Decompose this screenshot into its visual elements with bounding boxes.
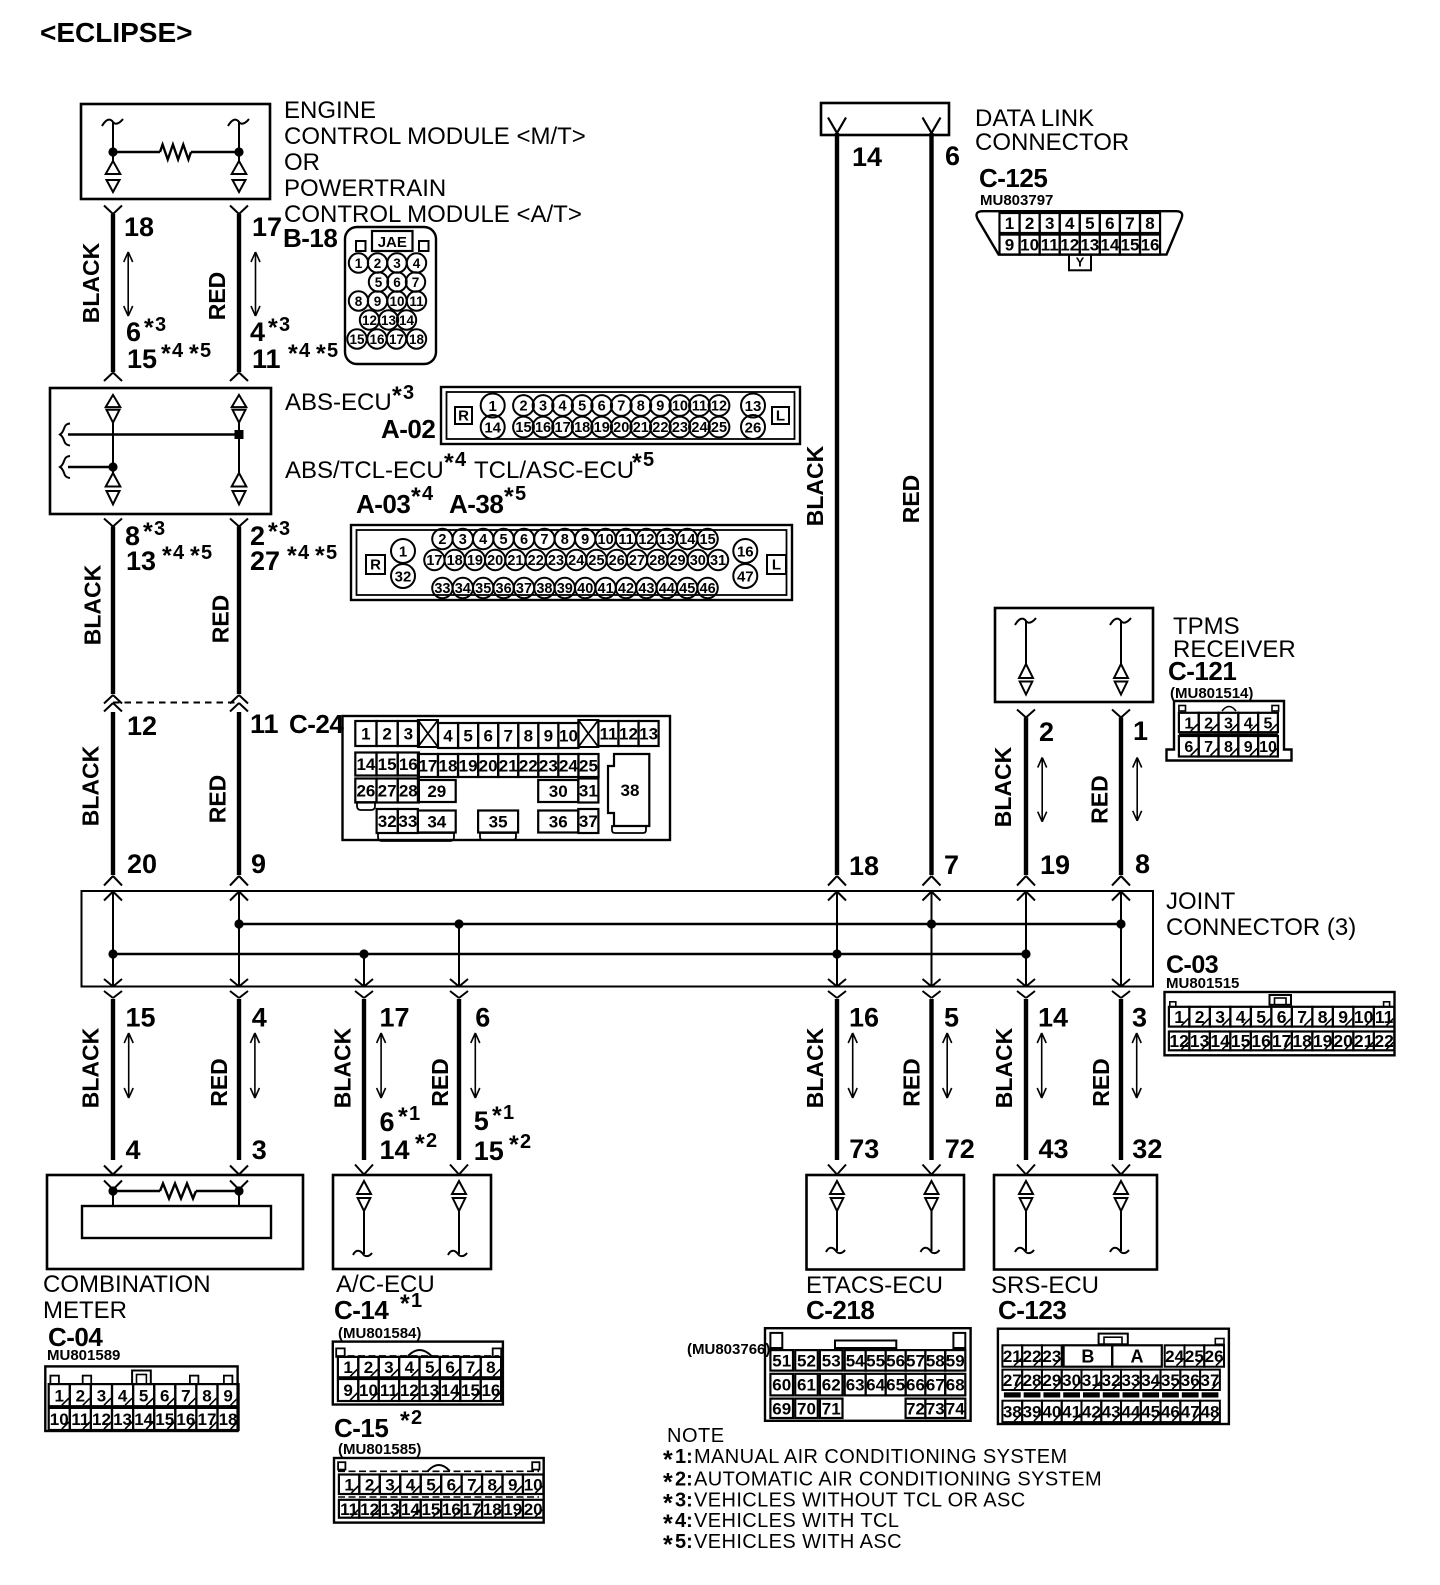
svg-text:VEHICLES WITH TCL: VEHICLES WITH TCL xyxy=(694,1510,899,1532)
C-03 cavity 16 xyxy=(1251,1032,1272,1051)
svg-text:14: 14 xyxy=(1100,236,1119,255)
svg-text:10: 10 xyxy=(1354,1007,1374,1027)
svg-text:16: 16 xyxy=(369,332,385,347)
C-03 cavity 2 xyxy=(1189,1007,1210,1027)
svg-text:11: 11 xyxy=(692,399,707,415)
svg-text:10: 10 xyxy=(672,399,688,415)
svg-text:C-121: C-121 xyxy=(1168,656,1236,686)
C-24 cavity 13 xyxy=(639,721,659,746)
connector C-03 pin diagram xyxy=(1165,992,1395,1055)
svg-text:14: 14 xyxy=(1210,1031,1230,1051)
svg-text:CONNECTOR: CONNECTOR xyxy=(975,129,1129,156)
B-18 pin 4 xyxy=(407,253,426,272)
wire BLACK segment joint to A/C-ECU xyxy=(362,999,366,1160)
svg-text:64: 64 xyxy=(866,1376,885,1395)
svg-text:Y: Y xyxy=(1076,255,1085,270)
connector C-24 pin diagram xyxy=(343,716,671,840)
wire RED segment DLC pin6 to joint xyxy=(929,133,933,875)
C-218 cavity 74 xyxy=(945,1399,965,1418)
svg-text:4: 4 xyxy=(422,483,434,505)
C-123 cavity 42 xyxy=(1081,1401,1101,1422)
svg-text:27: 27 xyxy=(629,553,645,569)
C-24 cavity 20 xyxy=(478,754,498,777)
svg-text:3: 3 xyxy=(279,518,290,540)
svg-text:16: 16 xyxy=(737,543,754,560)
C-24 cavity 28 xyxy=(398,779,419,803)
svg-text:13: 13 xyxy=(420,1381,439,1400)
C-125 pin 14 xyxy=(1100,235,1120,255)
junction dots on upper bus xyxy=(234,919,243,928)
C-123 cavity 21 xyxy=(1002,1345,1022,1366)
svg-text:3: 3 xyxy=(252,1135,267,1165)
svg-text:*: * xyxy=(161,340,171,368)
C-15 cavity 12 xyxy=(359,1500,379,1518)
C-15 cavity 19 xyxy=(503,1500,523,1518)
C-123 cavity 47 xyxy=(1180,1401,1200,1422)
svg-text:54: 54 xyxy=(846,1351,865,1370)
svg-text:42: 42 xyxy=(1082,1403,1101,1422)
svg-text:11: 11 xyxy=(250,709,279,739)
svg-text:23: 23 xyxy=(1042,1347,1061,1366)
svg-text:3:: 3: xyxy=(675,1489,693,1511)
svg-text:17: 17 xyxy=(462,1500,481,1519)
C-14 cavity 1 xyxy=(338,1357,358,1377)
svg-text:RED: RED xyxy=(898,475,924,524)
svg-text:16: 16 xyxy=(442,1500,461,1519)
C-15 cavity 4 xyxy=(400,1475,420,1495)
svg-text:11: 11 xyxy=(409,294,424,309)
svg-text:2: 2 xyxy=(1025,214,1034,233)
svg-text:BLACK: BLACK xyxy=(78,745,104,826)
C-03 cavity 4 xyxy=(1230,1007,1251,1027)
svg-text:A: A xyxy=(1131,1346,1144,1366)
C-24 cavity 37 xyxy=(578,809,598,833)
C-15 cavity 18 xyxy=(482,1500,502,1518)
C-14 cavity 10 xyxy=(358,1379,378,1401)
C-03 cavity 11 xyxy=(1374,1007,1395,1027)
svg-text:1: 1 xyxy=(399,543,407,560)
svg-text:15: 15 xyxy=(700,532,716,548)
twist arrow (TPMS left) xyxy=(1041,758,1043,822)
svg-text:16: 16 xyxy=(1141,236,1160,255)
svg-text:2: 2 xyxy=(1039,717,1054,747)
C-24 cavity 14 xyxy=(355,753,376,776)
C-14 cavity 16 xyxy=(481,1379,501,1401)
svg-text:25: 25 xyxy=(711,420,727,436)
C-14 cavity 7 xyxy=(460,1357,480,1377)
C-125 pin 6 xyxy=(1100,213,1120,233)
svg-text:BLACK: BLACK xyxy=(330,1027,356,1108)
A-02 pin 26 xyxy=(741,415,765,439)
svg-text:21: 21 xyxy=(1003,1347,1022,1366)
C-218 cavity 62 xyxy=(820,1374,843,1396)
svg-text:24: 24 xyxy=(1165,1347,1184,1366)
svg-text:*: * xyxy=(162,542,172,570)
svg-text:*: * xyxy=(287,542,297,570)
C-218 cavity 65 xyxy=(886,1374,906,1396)
B-18 pin 17 xyxy=(387,329,406,348)
svg-text:7: 7 xyxy=(412,275,420,290)
svg-text:DATA LINK: DATA LINK xyxy=(975,105,1094,132)
connector A-03/A-38 pin diagram xyxy=(351,525,792,600)
svg-text:COMBINATION: COMBINATION xyxy=(43,1271,211,1298)
svg-text:1: 1 xyxy=(55,1386,64,1405)
svg-text:16: 16 xyxy=(1251,1031,1271,1051)
svg-text:25: 25 xyxy=(1185,1347,1204,1366)
svg-text:*: * xyxy=(315,542,325,570)
B-18 pin 7 xyxy=(406,272,425,291)
C-04 cavity 3 xyxy=(91,1384,112,1406)
combination meter box xyxy=(47,1175,303,1269)
svg-text:23: 23 xyxy=(548,553,564,569)
wire BLACK segment DLC pin14 to joint xyxy=(835,133,839,875)
svg-text:3: 3 xyxy=(97,1386,106,1405)
svg-text:15: 15 xyxy=(126,1003,156,1033)
svg-text:15: 15 xyxy=(349,332,365,347)
C-03 cavity 9 xyxy=(1333,1007,1354,1027)
svg-text:2: 2 xyxy=(426,1130,437,1152)
C-24 cavity 2 xyxy=(377,721,398,746)
C-04 cavity 2 xyxy=(70,1384,91,1406)
A/C-ECU box xyxy=(333,1175,491,1269)
twist arrow (SRS right) xyxy=(1136,1033,1138,1098)
svg-text:1: 1 xyxy=(355,256,363,271)
svg-text:4: 4 xyxy=(126,1135,141,1165)
wire BLACK segment ABS pin8 down (left) xyxy=(104,519,113,527)
svg-text:19: 19 xyxy=(459,757,478,776)
svg-text:65: 65 xyxy=(886,1376,905,1395)
connector C-14 pin diagram xyxy=(333,1342,503,1405)
svg-text:*: * xyxy=(509,1131,519,1159)
A/C right pin symbol xyxy=(452,1181,466,1194)
svg-text:17: 17 xyxy=(389,332,404,347)
svg-text:5: 5 xyxy=(515,483,526,505)
svg-text:C-14: C-14 xyxy=(334,1295,389,1325)
svg-text:35: 35 xyxy=(489,813,508,832)
C-123 cavity 43 xyxy=(1101,1401,1121,1422)
svg-text:11: 11 xyxy=(599,725,617,744)
svg-text:7: 7 xyxy=(617,399,625,415)
svg-text:ENGINE: ENGINE xyxy=(284,97,376,124)
svg-text:17: 17 xyxy=(1272,1031,1291,1051)
C-04 cavity 7 xyxy=(175,1384,196,1406)
connector C-218 pin diagram xyxy=(765,1328,971,1421)
svg-text:*: * xyxy=(398,1103,408,1131)
svg-text:27: 27 xyxy=(378,782,397,801)
svg-text:5: 5 xyxy=(1085,214,1094,233)
svg-text:VEHICLES WITHOUT TCL OR ASC: VEHICLES WITHOUT TCL OR ASC xyxy=(694,1489,1026,1511)
svg-text:2:: 2: xyxy=(675,1469,693,1491)
svg-text:C-125: C-125 xyxy=(979,163,1047,193)
C-24 cavity 19 xyxy=(458,754,478,777)
svg-text:JOINT: JOINT xyxy=(1166,888,1236,915)
C-03 cavity 6 xyxy=(1271,1007,1292,1027)
C-123 cavity 45 xyxy=(1141,1401,1161,1422)
svg-text:14: 14 xyxy=(401,1500,420,1519)
svg-text:*: * xyxy=(400,1290,410,1318)
svg-text:5:: 5: xyxy=(675,1531,693,1553)
C-218 cavity 52 xyxy=(795,1350,818,1371)
svg-text:18: 18 xyxy=(1292,1031,1312,1051)
C-24 cavity 15 xyxy=(377,753,398,776)
svg-text:4: 4 xyxy=(479,532,487,548)
svg-text:12: 12 xyxy=(619,725,638,744)
twist arrow (A/C left) xyxy=(380,1033,382,1098)
C-24 cavity 10 xyxy=(558,723,578,748)
B-18 pin 6 xyxy=(387,272,406,291)
C-03 cavity 13 xyxy=(1189,1032,1210,1051)
twist arrow (ECM-ABS right) xyxy=(255,252,257,316)
svg-text:<ECLIPSE>: <ECLIPSE> xyxy=(40,17,193,48)
C-14 cavity 3 xyxy=(379,1357,399,1377)
svg-text:5: 5 xyxy=(500,532,508,548)
C-24 housing tabs xyxy=(357,802,375,810)
svg-text:21: 21 xyxy=(507,553,523,569)
svg-text:43: 43 xyxy=(1039,1134,1069,1164)
intermediate connector C-24 dashed line xyxy=(113,702,239,704)
A-03 pins 33-46 xyxy=(432,578,452,598)
C-14 cavity 14 xyxy=(440,1379,460,1401)
svg-text:26: 26 xyxy=(356,782,375,801)
C-15 cavity 6 xyxy=(441,1475,461,1495)
svg-text:8: 8 xyxy=(202,1386,211,1405)
C-123 cavity B xyxy=(1064,1345,1113,1366)
svg-text:73: 73 xyxy=(849,1134,879,1164)
svg-text:RED: RED xyxy=(1087,775,1113,824)
C-24 cavity 8 xyxy=(518,723,538,748)
svg-text:42: 42 xyxy=(618,581,634,597)
C-04 cavity 11 xyxy=(70,1408,91,1430)
svg-text:46: 46 xyxy=(1161,1403,1180,1422)
svg-text:6: 6 xyxy=(475,1003,490,1033)
svg-text:14: 14 xyxy=(441,1381,460,1400)
svg-text:7: 7 xyxy=(1125,214,1134,233)
svg-text:43: 43 xyxy=(638,581,654,597)
C-121 pin 9 xyxy=(1238,736,1258,757)
C-123 cavity 32 xyxy=(1101,1370,1121,1390)
svg-text:39: 39 xyxy=(557,581,573,597)
C-14 cavity 12 xyxy=(399,1379,419,1401)
svg-text:4: 4 xyxy=(172,340,184,362)
svg-text:ABS/TCL-ECU: ABS/TCL-ECU xyxy=(285,457,444,484)
svg-text:19: 19 xyxy=(1313,1031,1333,1051)
A-02 pins 15-25 xyxy=(513,417,534,438)
svg-text:5: 5 xyxy=(375,275,383,290)
svg-text:31: 31 xyxy=(1082,1371,1101,1390)
C-03 cavity 5 xyxy=(1251,1007,1272,1027)
wire BLACK segment joint to combination meter xyxy=(111,999,115,1160)
C-04 cavity 10 xyxy=(49,1408,70,1430)
C-24 cavity 35 xyxy=(478,811,518,833)
C-24 cavity 3 xyxy=(398,721,419,746)
svg-text:*: * xyxy=(268,314,278,342)
C-15 cavity 8 xyxy=(482,1475,502,1495)
wire BLACK segment joint to ETACS-ECU xyxy=(835,999,839,1160)
svg-text:36: 36 xyxy=(549,813,568,832)
svg-text:OR: OR xyxy=(284,149,320,176)
svg-text:1: 1 xyxy=(411,1290,422,1312)
svg-text:14: 14 xyxy=(134,1410,153,1429)
svg-text:47: 47 xyxy=(1181,1403,1200,1422)
C-24 break chevrons left xyxy=(104,695,113,704)
svg-text:26: 26 xyxy=(745,419,762,436)
svg-text:14: 14 xyxy=(399,313,415,328)
C-04 cavity 13 xyxy=(112,1408,133,1430)
svg-text:56: 56 xyxy=(886,1351,905,1370)
wire RED segment C-24 to joint connector xyxy=(237,712,241,875)
svg-text:14: 14 xyxy=(484,419,501,436)
svg-text:13: 13 xyxy=(126,546,156,576)
svg-text:17: 17 xyxy=(426,553,442,569)
C-123 cavity 41 xyxy=(1062,1401,1082,1422)
C-14 cavity 4 xyxy=(399,1357,419,1377)
svg-text:25: 25 xyxy=(579,757,598,776)
svg-text:1:: 1: xyxy=(675,1446,693,1468)
svg-text:18: 18 xyxy=(409,332,425,347)
C-125 pin 13 xyxy=(1080,235,1100,255)
C-24 blocked cavity X (left) xyxy=(418,720,438,747)
svg-text:*: * xyxy=(444,449,454,477)
svg-text:62: 62 xyxy=(822,1376,841,1395)
svg-text:R: R xyxy=(370,557,381,574)
C-218 cavity 73 xyxy=(925,1399,945,1418)
ABS left pin symbols xyxy=(106,395,121,407)
svg-text:RED: RED xyxy=(206,1058,232,1107)
svg-text:34: 34 xyxy=(427,813,446,832)
C-04 cavity 14 xyxy=(133,1408,154,1430)
C-24 break chevrons right xyxy=(230,695,239,704)
svg-text:6: 6 xyxy=(1105,214,1114,233)
C-04 cavity 5 xyxy=(133,1384,154,1406)
ABS-ECU box xyxy=(50,388,271,514)
svg-text:6: 6 xyxy=(483,727,492,746)
C-04 cavity 15 xyxy=(154,1408,175,1430)
svg-text:3: 3 xyxy=(393,256,401,271)
C-15 cavity 11 xyxy=(339,1500,359,1518)
svg-text:B: B xyxy=(1081,1346,1094,1366)
svg-text:33: 33 xyxy=(434,581,450,597)
svg-text:22: 22 xyxy=(1374,1031,1394,1051)
C-15 cavity 20 xyxy=(523,1500,543,1518)
svg-text:24: 24 xyxy=(559,757,578,776)
data link connector box xyxy=(821,103,949,135)
C-24 cavity 30 xyxy=(538,780,578,802)
svg-text:3: 3 xyxy=(279,314,290,336)
svg-text:24: 24 xyxy=(568,553,584,569)
A-03 pins 2-15 xyxy=(432,529,452,549)
svg-text:4: 4 xyxy=(250,317,265,347)
C-24 cavity 36 xyxy=(538,811,578,833)
B-18 pin 11 xyxy=(407,291,426,310)
svg-text:16: 16 xyxy=(399,755,418,774)
C-15 cavity 17 xyxy=(462,1500,482,1518)
C-04 cavity 9 xyxy=(218,1384,239,1406)
svg-text:10: 10 xyxy=(1259,739,1277,756)
C-218 cavity 56 xyxy=(886,1350,906,1371)
svg-text:16: 16 xyxy=(535,420,551,436)
svg-text:METER: METER xyxy=(43,1297,127,1324)
C-15 cavity 5 xyxy=(421,1475,441,1495)
svg-text:22: 22 xyxy=(528,553,544,569)
joint internal vertical wires xyxy=(112,891,114,987)
svg-text:26: 26 xyxy=(609,553,625,569)
C-03 cavity 12 xyxy=(1169,1032,1190,1051)
C-24 cavity 9 xyxy=(538,723,558,748)
svg-text:ABS-ECU: ABS-ECU xyxy=(285,389,392,416)
svg-text:*: * xyxy=(316,340,326,368)
connector C-125 pin diagram (OBD trapezoid) xyxy=(976,211,1182,254)
svg-text:14: 14 xyxy=(852,142,882,172)
svg-text:14: 14 xyxy=(356,755,375,774)
svg-text:20: 20 xyxy=(1333,1031,1353,1051)
svg-text:37: 37 xyxy=(516,581,532,597)
svg-text:*: * xyxy=(663,1531,673,1559)
C-14 cavity 8 xyxy=(481,1357,501,1377)
svg-text:15: 15 xyxy=(1120,236,1139,255)
C-125 colour key Y xyxy=(1069,255,1091,271)
svg-text:NOTE: NOTE xyxy=(667,1425,725,1447)
svg-text:2: 2 xyxy=(438,532,446,548)
svg-text:4: 4 xyxy=(118,1386,128,1405)
C-125 pin 1 xyxy=(1000,213,1020,233)
C-24 cavity 12 xyxy=(618,721,638,746)
C-24 cavity 27 xyxy=(377,779,398,803)
svg-text:43: 43 xyxy=(1102,1403,1121,1422)
svg-text:*: * xyxy=(492,1102,502,1130)
svg-text:13: 13 xyxy=(381,1500,400,1519)
B-18 pin 3 xyxy=(387,253,406,272)
svg-text:6: 6 xyxy=(945,141,960,171)
C-24 cavity 33 xyxy=(398,809,418,833)
A-03 pin 47 xyxy=(733,564,757,588)
C-123 cavity 34 xyxy=(1141,1370,1161,1390)
svg-text:5: 5 xyxy=(463,727,472,746)
C-15 cavity 15 xyxy=(421,1500,441,1518)
svg-text:4: 4 xyxy=(559,399,567,415)
C-123 cavity 23 xyxy=(1042,1345,1062,1366)
svg-text:9: 9 xyxy=(581,532,589,548)
svg-text:10: 10 xyxy=(524,1475,543,1494)
svg-text:58: 58 xyxy=(926,1351,945,1370)
svg-text:11: 11 xyxy=(1375,1007,1394,1027)
C-123 cavity 24 xyxy=(1165,1345,1185,1366)
svg-text:BLACK: BLACK xyxy=(991,1027,1017,1108)
ETACS right pin symbol xyxy=(925,1181,939,1194)
svg-text:1: 1 xyxy=(409,1103,420,1125)
B-18 pin 13 xyxy=(379,310,398,329)
svg-text:8: 8 xyxy=(637,399,645,415)
svg-text:*: * xyxy=(288,340,298,368)
C-03 cavity 19 xyxy=(1312,1032,1333,1051)
svg-text:12: 12 xyxy=(638,532,654,548)
svg-text:10: 10 xyxy=(50,1410,69,1429)
C-15 cavity 13 xyxy=(380,1500,400,1518)
svg-text:C-24: C-24 xyxy=(289,709,344,739)
twist arrow (meter right) xyxy=(254,1033,256,1098)
C-218 cavity 66 xyxy=(906,1374,926,1396)
wire BLACK segment ECM pin18 to ABS (left) xyxy=(104,206,113,215)
C-14 cavity 5 xyxy=(420,1357,440,1377)
C-218 cavity 69 xyxy=(770,1399,793,1418)
C-03 cavity 18 xyxy=(1292,1032,1313,1051)
joint top edge chevrons xyxy=(104,876,113,886)
resistor R1 (CAN terminating, inside ECM) xyxy=(113,151,160,153)
C-04 cavity 18 xyxy=(218,1408,239,1430)
svg-text:TCL/ASC-ECU: TCL/ASC-ECU xyxy=(474,457,634,484)
svg-text:MU803797: MU803797 xyxy=(980,192,1053,209)
svg-text:15: 15 xyxy=(421,1500,440,1519)
svg-text:5: 5 xyxy=(474,1106,489,1136)
